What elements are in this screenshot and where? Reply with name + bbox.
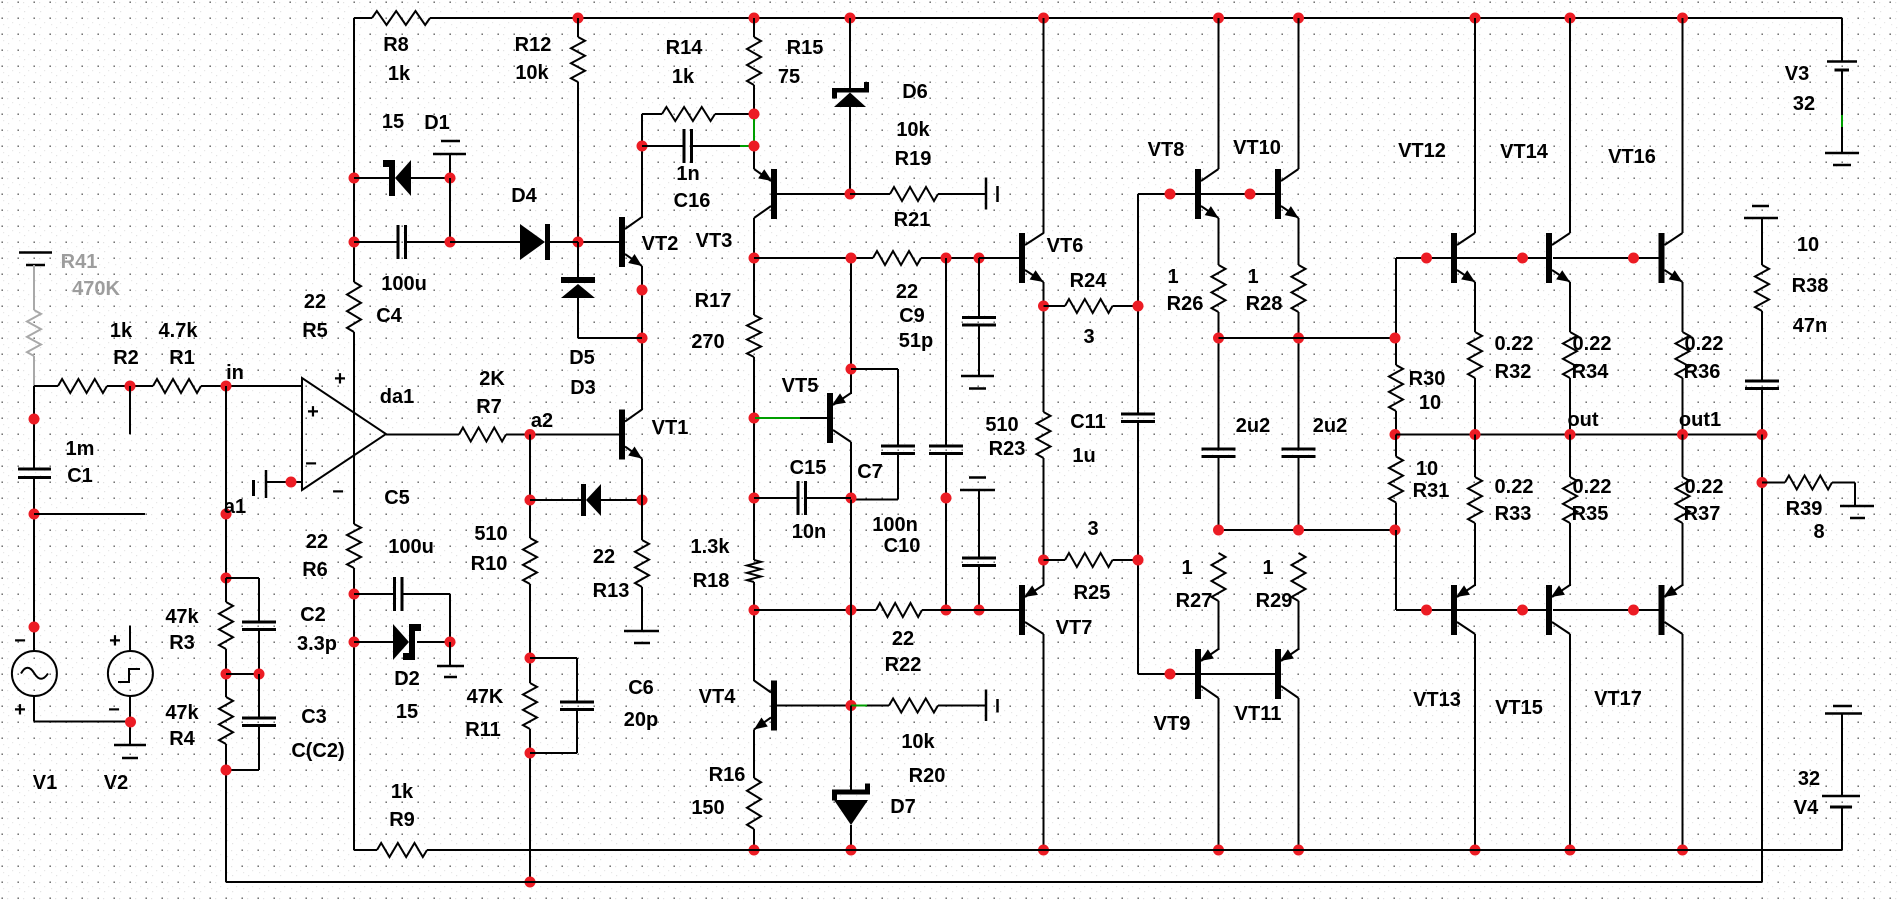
svg-text:V3: V3 [1785,63,1809,85]
resistor R28 [1292,265,1306,312]
terminal above V4 [1833,705,1852,708]
node junction rail x1682 [1677,845,1688,856]
transistor VT14 [1546,233,1552,283]
capacitor C15 [797,481,800,515]
resistor R3 leads [225,578,227,602]
node junction C11 R24 [1133,301,1144,312]
wire mid rail upper [1219,337,1397,339]
node junction R14 right [749,109,760,120]
svg-text:D7: D7 [890,796,916,818]
node junction rail x1218 [1213,845,1224,856]
node junction VT15 base [1517,605,1528,616]
svg-text:0.22: 0.22 [1685,333,1724,355]
node junction 2u2 rail right [1293,525,1304,536]
svg-text:R41: R41 [61,251,98,273]
capacitor C16 [683,129,686,163]
svg-text:R33: R33 [1495,503,1532,525]
node junction out x1762 [1757,429,1768,440]
resistor R8 [372,11,430,25]
svg-text:R34: R34 [1572,361,1610,383]
resistor R25 leads [1044,559,1066,561]
wire C6 top [530,657,577,659]
ground at V3 [1825,152,1859,155]
svg-text:VT9: VT9 [1154,713,1191,735]
node junction out rail left [1390,429,1401,440]
svg-text:0.22: 0.22 [1573,476,1612,498]
resistor R23 [1037,412,1051,458]
diode D3 [581,484,586,516]
wire stub below R1 R2 junction [129,386,131,434]
svg-text:C5: C5 [384,487,410,509]
wire VT4 emitter [753,730,755,779]
wire R33 bottom [1474,523,1476,586]
wire R19 right lead [938,193,986,195]
svg-text:10k: 10k [901,731,935,753]
svg-text:−: − [305,453,317,475]
resistor R12 lead [577,18,579,37]
svg-text:47k: 47k [165,702,199,724]
wire R28 bottom [1298,312,1300,449]
wire VT8 base row [1138,193,1195,195]
svg-text:R7: R7 [476,396,502,418]
wire V1 bottom [33,696,35,722]
battery symbol at D2 [449,642,451,666]
wire out rail [1396,434,1762,436]
svg-text:VT1: VT1 [652,417,689,439]
wire D7 bottom [850,825,852,850]
svg-text:100u: 100u [388,536,434,558]
resistor R25 [1065,553,1113,567]
svg-text:−: − [14,630,26,652]
resistor R2 leads [34,385,58,387]
terminal at R19 [985,178,988,210]
svg-text:VT16: VT16 [1608,146,1656,168]
wire VT6 collector [1043,18,1045,234]
node junction VT17 base [1628,605,1639,616]
diode D2 [393,624,409,660]
node junction bottom line x530 [525,877,536,888]
svg-text:1k: 1k [110,320,133,342]
svg-text:22: 22 [896,281,918,303]
wire C5 to D2 [449,594,451,642]
svg-text:R38: R38 [1792,275,1829,297]
svg-text:R2: R2 [113,347,139,369]
wire V4 bottom [1841,807,1843,850]
node junction VT9 base [1165,669,1176,680]
svg-text:C3: C3 [301,706,327,728]
transistor VT2 [619,217,625,267]
svg-text:1: 1 [1181,557,1192,579]
wire R36 bottom [1682,378,1684,435]
node junction out x1682 [1677,429,1688,440]
resistor R39 leads [1762,482,1785,484]
resistor R18 [747,560,761,582]
svg-text:R15: R15 [787,37,824,59]
svg-text:R13: R13 [593,580,630,602]
wire VT13 base row [1396,609,1451,611]
node junction C9 bottom [941,493,952,504]
wire 2u2 right bottom [1298,457,1300,531]
resistor R24a 22 [873,251,921,265]
wire C9 column bottom [945,454,947,611]
svg-text:VT10: VT10 [1233,137,1281,159]
node a2 [525,429,536,440]
capacitor C6 [560,701,594,704]
svg-text:2u2: 2u2 [1313,415,1347,437]
wire C2 bottom [258,630,260,675]
wire lower bypass cap [978,490,980,558]
transistor VT6 [1019,233,1025,283]
diode D4 [520,224,545,260]
terminal at R20 [985,690,988,722]
svg-text:a2: a2 [531,410,553,432]
node junction R22 left [749,605,760,616]
transistor VT3 [771,169,777,219]
transistor VT1 [619,410,625,460]
resistor R24 [1065,299,1113,313]
svg-text:C9: C9 [899,305,925,327]
capacitor C4 [397,225,400,259]
node junction C4 right [445,237,456,248]
svg-text:C(C2): C(C2) [291,740,344,762]
svg-text:R3: R3 [169,632,195,654]
resistor R2 [58,379,107,393]
svg-text:VT3: VT3 [696,230,733,252]
svg-text:20p: 20p [624,709,658,731]
wire R31 top [1395,435,1397,457]
svg-text:3: 3 [1087,518,1098,540]
wire VT11 emitter down [1298,698,1300,850]
wire R37 bottom [1682,523,1684,586]
svg-text:32: 32 [1793,93,1815,115]
svg-text:da1: da1 [380,386,414,408]
svg-text:47k: 47k [165,606,199,628]
node junction 2u2 rail left [1213,525,1224,536]
capacitor C2 [242,621,276,624]
op-amp U1 da1 [302,378,386,490]
node junction C11 R25 [1133,555,1144,566]
node junction top bus x1218 [1213,13,1224,24]
node junction top bus x1682 [1677,13,1688,24]
wire R14 left lead [642,113,662,115]
svg-text:VT12: VT12 [1398,140,1446,162]
node junction VT12 base [1421,253,1432,264]
svg-text:15: 15 [396,701,418,723]
svg-text:R4: R4 [169,728,195,750]
svg-text:C7: C7 [857,461,883,483]
wire x851 down [850,500,852,611]
svg-text:51p: 51p [899,330,933,352]
diode D6 lead [849,18,851,88]
svg-text:R23: R23 [989,438,1026,460]
node junction VT14 base [1517,253,1528,264]
wire R27 bottom [1218,601,1220,650]
battery offset at op-amp minus input [252,480,255,496]
node junction top bus x578 [573,13,584,24]
wire VT12 base row [1396,257,1451,259]
diode D5 [561,277,595,283]
wire R15 bottom [753,85,755,119]
capacitor C3 lead [258,674,260,718]
svg-text:R31: R31 [1413,480,1450,502]
wire R32 bottom [1474,378,1476,435]
capacitor C1 [18,468,51,471]
resistor R37 [1676,477,1690,523]
svg-text:VT13: VT13 [1413,689,1461,711]
svg-text:VT15: VT15 [1495,697,1543,719]
node junction C15 left [749,493,760,504]
capacitor C4 leads [354,241,398,243]
ground below V2 [114,744,146,747]
svg-text:V1: V1 [33,772,57,794]
wire battery to op-amp minus input [266,481,302,483]
wire R30 bottom [1395,411,1397,435]
wire R20 right lead [938,705,986,707]
svg-text:C10: C10 [884,535,921,557]
svg-text:R5: R5 [302,320,328,342]
wire VT1 emitter [641,459,643,541]
svg-text:VT5: VT5 [782,375,819,397]
node junction C2 C3 [254,669,265,680]
svg-text:C16: C16 [674,190,711,212]
wire VT2 collector column [641,114,643,218]
svg-text:R12: R12 [515,34,552,56]
resistor R35 [1563,477,1577,523]
node junction VT5 top [846,253,857,264]
svg-text:R16: R16 [709,764,746,786]
svg-text:C1: C1 [67,465,93,487]
svg-text:R14: R14 [666,37,704,59]
node junction out x1475 [1470,429,1481,440]
node junction rail x1298 [1293,845,1304,856]
node junction VT5 base [749,413,760,424]
svg-text:C4: C4 [376,305,402,327]
capacitor bypass bottom [962,557,996,560]
svg-text:510: 510 [474,523,507,545]
svg-text:R39: R39 [1786,498,1823,520]
wire C7 top row [851,368,898,370]
svg-text:75: 75 [778,66,800,88]
svg-text:R8: R8 [383,34,409,56]
node in [221,381,232,392]
resistor R15 [747,37,761,85]
wire left rail upper [353,18,355,282]
wire R17 to R18 [753,357,755,560]
svg-text:100n: 100n [872,514,918,536]
node junction x642 y290 [637,285,648,296]
node junction VT8 base [1165,189,1176,200]
wire VT3 base [777,193,850,195]
svg-text:0.22: 0.22 [1495,476,1534,498]
capacitor 2u2 right [1282,448,1316,451]
wire VT10 emitter [1298,218,1300,265]
node junction R28 rail [1293,333,1304,344]
wire a2 column [529,435,531,539]
node junction C16 right [749,141,760,152]
resistor R6 [347,524,361,568]
node junction top bus x1298 [1293,13,1304,24]
resistor R32 [1468,332,1482,378]
resistor R17 [747,315,761,357]
wire left column to C1 [33,386,35,469]
svg-text:C11: C11 [1070,411,1106,433]
svg-text:150: 150 [691,797,724,819]
diode D1 leads [354,177,389,179]
node junction C16 left [637,141,648,152]
node a1 [221,509,232,520]
node junction V2 ground [125,717,136,728]
node junction C1 top [29,414,40,425]
source V2 clock [108,651,153,696]
resistor R11 [523,683,537,729]
svg-text:R32: R32 [1495,361,1532,383]
diode D1 [389,160,395,196]
transistor VT7 [1019,585,1025,635]
svg-text:R26: R26 [1167,293,1204,315]
svg-text:D3: D3 [570,377,596,399]
svg-text:R9: R9 [389,809,415,831]
resistor R30 [1389,365,1403,411]
wire bottom rail [427,849,1842,851]
node junction R4 bottom [221,765,232,776]
svg-text:VT8: VT8 [1148,139,1185,161]
capacitor C5 [393,577,396,611]
svg-text:470K: 470K [72,278,120,300]
svg-text:1: 1 [1167,266,1178,288]
diode D7 lead [850,706,852,790]
svg-text:R10: R10 [471,553,508,575]
ground below R13 [624,630,659,633]
node junction D1 right [445,173,456,184]
wire VT17 down [1682,634,1684,850]
svg-text:1u: 1u [1072,445,1095,467]
svg-text:4.7k: 4.7k [159,320,199,342]
wire R1 to op-amp plus input [201,385,302,387]
svg-text:+: + [14,699,26,721]
svg-text:1m: 1m [66,438,95,460]
node junction rail x1043 [1038,845,1049,856]
svg-text:−: − [332,481,344,503]
wire R26 bottom [1218,312,1220,449]
svg-text:R36: R36 [1684,361,1721,383]
wire R14 right lead [715,113,753,115]
node junction VT3 base D6 [845,189,856,200]
capacitor C15 leads [754,497,798,499]
node junction R25 left [1038,555,1049,566]
wire V3 top [1841,18,1843,62]
transistor VT8 [1195,169,1201,219]
resistor R37 top [1682,435,1684,478]
wire R41 bottom lead [33,356,35,386]
ground below bypass cap [961,375,994,378]
wire V2 top stub [129,626,131,652]
wire D5 bottom [577,298,579,338]
wire stub right at y514 [34,513,145,515]
wire x754 to VT3 [753,141,755,169]
resistor R34 [1563,332,1577,378]
wire green VT5 base [755,417,800,419]
svg-text:R20: R20 [909,765,946,787]
wire C1 to V1 [33,478,35,652]
node junction C4 left [349,237,360,248]
resistor R26 [1212,265,1226,312]
wire C7 bottom [897,454,899,500]
node junction top bus x1475 [1470,13,1481,24]
transistor VT13 [1451,585,1457,635]
wire R12 bottom [577,82,579,242]
svg-text:R25: R25 [1074,582,1111,604]
node junction D1 left [349,173,360,184]
wire VT4 base [777,705,851,707]
diode D4 leads [450,241,520,243]
svg-text:510: 510 [985,414,1018,436]
capacitor C5 leads [354,593,395,595]
wire rail below R6 [353,568,355,850]
node junction R39 left [1757,477,1768,488]
resistor R31 [1389,457,1403,503]
transistor VT11 [1275,649,1281,699]
svg-text:R1: R1 [169,347,195,369]
resistor R10 [523,538,537,584]
wire 2u2 left bottom [1218,457,1220,531]
wire x1762 down [1761,435,1763,883]
svg-text:D4: D4 [511,185,537,207]
svg-text:10: 10 [1416,458,1438,480]
resistor R4 [219,697,233,744]
resistor R7 [459,428,506,442]
resistor R24 leads [1044,305,1066,307]
capacitor C16 leads [642,145,684,147]
transistor VT17 [1659,585,1665,635]
svg-text:VT11: VT11 [1235,703,1282,725]
wire R41 top lead [33,265,35,310]
wire R13 to ground [641,587,643,631]
node junction R3 top [221,573,232,584]
node junction D2 left [349,637,360,648]
wire V4 middle [1841,714,1843,797]
svg-text:1k: 1k [672,66,695,88]
node junction VT16 base [1628,253,1639,264]
node junction R31 rail [1390,525,1401,536]
svg-text:0.22: 0.22 [1495,333,1534,355]
node junction D5 bottom row [637,333,648,344]
wire C3 bottom [258,726,260,771]
svg-text:R30: R30 [1409,368,1446,390]
wire bottom rail left lead [354,849,377,851]
node junction R1 R2 [125,381,136,392]
svg-text:22: 22 [593,546,615,568]
zener D6 [832,88,869,93]
svg-text:3: 3 [1083,326,1094,348]
battery symbol at D1 [433,153,466,156]
wire green x754 [753,119,755,141]
node junction stub a1 row [29,509,40,520]
wire rail through op-amp [353,332,355,524]
svg-text:D2: D2 [394,668,420,690]
diode D3 leads [530,499,581,501]
capacitor 47n [1745,380,1779,383]
resistor R41 (disabled) [27,310,41,356]
svg-text:C15: C15 [790,457,827,479]
wire green R20 row [851,705,867,707]
wire VT12 collector [1474,18,1476,233]
svg-text:8: 8 [1813,521,1824,543]
node junction D2 right [445,637,456,648]
svg-text:10: 10 [1797,234,1819,256]
svg-text:2u2: 2u2 [1236,415,1270,437]
node junction top bus x850 [845,13,856,24]
resistor R16 [747,778,761,829]
